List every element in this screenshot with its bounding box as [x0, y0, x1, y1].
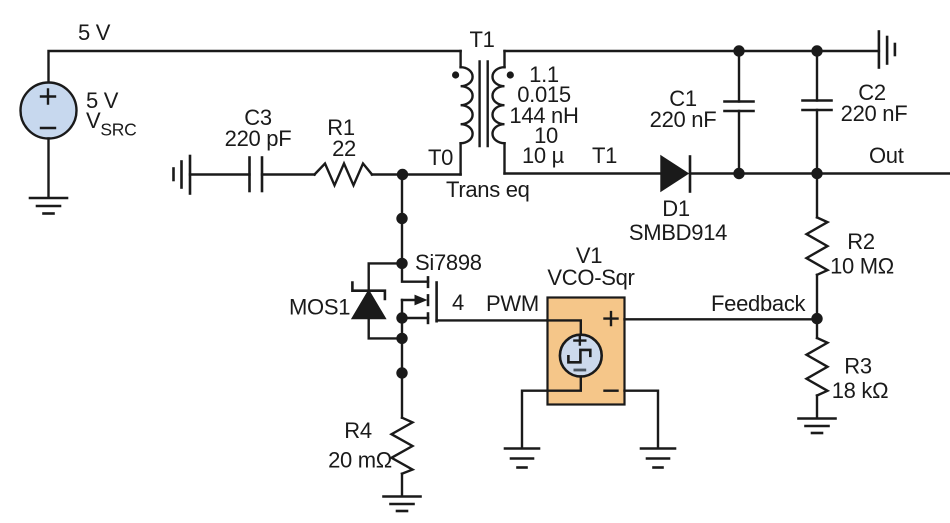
svg-text:220 pF: 220 pF: [225, 126, 292, 151]
wire feedback node to R3: [816, 319, 818, 338]
wire ground to C3: [190, 173, 250, 175]
node dot on drain wire: [396, 213, 407, 224]
transformer T1 core: [480, 62, 488, 147]
MOSFET MOS1 drain lead: [402, 263, 428, 281]
V1 source circle: [560, 335, 602, 377]
svg-text:5 V: 5 V: [78, 20, 111, 45]
node T0/R1 junction dot: [397, 169, 408, 180]
svg-text:Si7898: Si7898: [415, 250, 482, 275]
node dot C1 top: [733, 45, 744, 56]
node dot zener bottom: [396, 333, 407, 344]
svg-text:R4: R4: [344, 418, 372, 443]
wire D1 to Out (right edge): [690, 172, 950, 174]
svg-text:10 MΩ: 10 MΩ: [830, 254, 894, 279]
wire T1 secondary bottom to D1: [505, 172, 662, 174]
wire R4 to ground: [401, 474, 403, 496]
diode D1: [662, 157, 691, 192]
V1 minus terminal: [605, 390, 618, 392]
MOSFET MOS1 source lead: [402, 317, 428, 319]
svg-text:4: 4: [452, 290, 464, 315]
zener diode triangle: [353, 292, 385, 319]
svg-text:T0: T0: [428, 145, 453, 170]
resistor R4: [392, 418, 413, 474]
svg-text:D1: D1: [662, 196, 690, 221]
V1 internal wiring bottom to left ground: [522, 377, 581, 448]
wire R2 to feedback node: [816, 275, 818, 320]
node dot drain/zener: [396, 258, 407, 269]
transformer T1 secondary winding: [493, 51, 505, 174]
node dot feedback: [811, 313, 822, 324]
node dot C2 bottom: [811, 168, 822, 179]
ground below R3: [799, 419, 836, 434]
svg-text:SMBD914: SMBD914: [629, 220, 727, 245]
capacitor C2: [803, 51, 832, 174]
svg-text:20 mΩ: 20 mΩ: [328, 448, 392, 473]
resistor R2: [807, 217, 828, 274]
wire source node down through R4 node: [401, 318, 403, 418]
wire V1 minus to right ground: [625, 391, 659, 448]
svg-text:R3: R3: [844, 354, 872, 379]
wire T1 secondary top rail: [505, 50, 879, 52]
wire R3 to ground: [816, 396, 818, 418]
node dot source: [396, 312, 407, 323]
svg-text:220 nF: 220 nF: [841, 101, 908, 126]
wire T0 node down to MOSFET drain node: [401, 175, 403, 264]
transformer T1 primary winding: [461, 51, 473, 175]
node dot C1 bottom: [733, 168, 744, 179]
wire top rail from source to T1 primary: [49, 51, 461, 83]
ground below V1 left: [505, 449, 539, 468]
wire C3 to R1: [262, 173, 315, 175]
resistor R3: [807, 338, 828, 396]
V1 VCO-Sqr source box: [548, 298, 625, 405]
transformer secondary phase dot: [507, 71, 514, 78]
ground left of C3 (sideways): [174, 156, 191, 194]
transformer primary phase dot: [452, 71, 459, 78]
capacitor C3: [250, 158, 263, 192]
ground below V1 right: [641, 449, 675, 468]
wire gate to PWM / V1: [437, 319, 548, 321]
svg-text:Feedback: Feedback: [711, 291, 807, 316]
wire V1 plus output to feedback node: [625, 318, 818, 320]
ground top-right (sideways): [879, 32, 895, 68]
svg-text:18 kΩ: 18 kΩ: [832, 378, 889, 403]
wire Out down to R2: [816, 174, 818, 218]
resistor R1: [315, 164, 373, 186]
MOSFET MOS1 gate bar: [435, 283, 438, 322]
svg-text:PWM: PWM: [486, 291, 539, 316]
ground below source: [30, 198, 67, 214]
svg-text:T1: T1: [469, 27, 494, 52]
zener bottom wire to source node: [369, 318, 402, 338]
V1 internal wiring top: [548, 320, 581, 334]
svg-text:22: 22: [332, 136, 356, 161]
ground below R4: [384, 497, 421, 512]
zener body diode top wire: [369, 263, 402, 290]
node dot C2 top: [811, 45, 822, 56]
svg-text:Out: Out: [869, 143, 904, 168]
svg-text:220 nF: 220 nF: [650, 107, 717, 132]
MOSFET MOS1 channel bar: [427, 277, 430, 323]
wire source bottom to ground: [47, 139, 49, 198]
svg-text:R2: R2: [847, 229, 875, 254]
svg-text:10 µ: 10 µ: [522, 143, 565, 168]
svg-text:T1: T1: [592, 143, 617, 168]
MOSFET MOS1 body arrow: [402, 295, 428, 318]
svg-text:MOS1: MOS1: [289, 295, 350, 320]
svg-text:Trans eq: Trans eq: [446, 177, 530, 202]
zener diode MOS1 body (bar with hooks): [352, 283, 385, 300]
V1 plus terminal: [605, 312, 618, 325]
node dot above R4: [396, 367, 407, 378]
voltage source VSRC: [21, 83, 77, 139]
svg-text:VCO-Sqr: VCO-Sqr: [547, 265, 634, 290]
wire R1 to T0 node to T1 primary: [372, 173, 461, 175]
capacitor C1: [725, 51, 754, 174]
